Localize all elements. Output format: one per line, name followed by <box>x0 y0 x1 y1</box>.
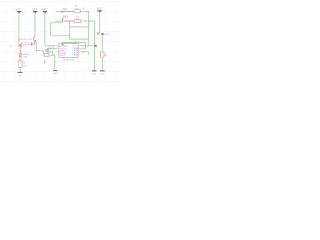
red X marker top right <box>97 32 100 35</box>
svg-text:RxD: RxD <box>63 15 68 19</box>
net horizontal D <box>69 38 88 40</box>
wire from P3 down then right to IC pin <box>45 13 56 45</box>
wire IC pin3 right short stub <box>81 52 88 55</box>
svg-text:PB0A: PB0A <box>73 54 79 57</box>
wire R3 right to ground vertical <box>50 55 55 70</box>
wire from P1 down to Q1 <box>18 13 20 43</box>
power symbol P4 (top right) <box>97 8 102 13</box>
junction blob right <box>101 33 103 35</box>
svg-text:GND: GND <box>100 73 105 75</box>
wire RxD row to R2 <box>64 20 75 22</box>
ground GND1 <box>17 72 22 78</box>
wire from P2 down to Q2 emitter <box>34 13 36 36</box>
base wire Q1 to Q2 (salmon) <box>22 44 34 46</box>
wire tee down from pin1 row <box>52 46 54 49</box>
net stub vertical below C1 area <box>44 60 46 64</box>
svg-text:GND: GND <box>53 73 58 75</box>
svg-text:10k: 10k <box>75 8 78 10</box>
junction dot on Q1 <box>20 45 22 46</box>
svg-text:GND1: GND1 <box>60 55 66 57</box>
svg-text:1k: 1k <box>82 8 84 10</box>
wire tee horizontal to IC pin2 <box>47 48 56 50</box>
resistor R4 (vertical) <box>18 61 22 68</box>
wire Q2 collector down to R3 <box>36 42 43 55</box>
power symbol P2 <box>32 8 37 13</box>
svg-text:VCC: VCC <box>32 8 37 11</box>
wire IC pin1 right to vertical x88.7 <box>81 45 96 47</box>
wire from P4 down to label X <box>99 13 101 33</box>
net horizontal B <box>69 26 88 28</box>
net vertical V1 from RxD row down <box>68 21 70 39</box>
R2 right lead <box>81 20 84 22</box>
box net around (50.7, 22.8-35.8) <box>51 23 70 36</box>
TxD pin stub <box>56 10 61 12</box>
wire from label down to R5 <box>101 35 103 50</box>
wire IC pin2 right up and over IC top <box>63 43 86 49</box>
IC1 right pin texts <box>73 47 79 57</box>
ground GND2 <box>53 70 58 75</box>
resistor R3 (horizontal, center) <box>44 54 49 57</box>
Q2 emitter arrow blob <box>35 40 37 42</box>
RxD pin stub <box>56 20 62 22</box>
transistor Q2 (PNP) <box>34 36 37 42</box>
IC1 box <box>59 44 78 58</box>
ground GND4 <box>100 70 105 75</box>
diode D3 on RxD row (vertical, hanging) <box>61 19 64 21</box>
resistor R2 <box>74 20 80 23</box>
IC1 left pin leads <box>56 46 59 52</box>
wire cap bottom to ground vertical <box>47 52 53 55</box>
svg-text:VCC: VCC <box>42 8 47 11</box>
diode D1 below Q1 <box>19 50 21 54</box>
svg-text:ATTINY2313: ATTINY2313 <box>63 58 75 61</box>
wire D1 to R4 <box>19 57 21 61</box>
resistor R1 <box>74 10 81 13</box>
wire R1 to vertical <box>84 11 89 45</box>
svg-text:LED1: LED1 <box>104 34 110 36</box>
transistor Q1 <box>19 43 22 49</box>
capacitor C1 <box>45 49 49 53</box>
wire R5 to GND4 <box>101 57 103 70</box>
junction tick on wire <box>31 43 32 45</box>
svg-text:VCC: VCC <box>16 8 21 11</box>
svg-text:TxD: TxD <box>62 7 67 11</box>
wire R4 to GND1 <box>19 67 21 72</box>
wire D2 to R1 <box>64 10 75 12</box>
svg-text:10k: 10k <box>76 18 79 20</box>
IC1 right pin leads <box>78 46 81 52</box>
power symbol P3 <box>42 8 47 13</box>
resistor R5 (vertical) <box>100 52 104 57</box>
svg-text:BC557C-SM: BC557C-SM <box>20 39 32 41</box>
power symbol P1 (+5V top-left) <box>16 8 22 13</box>
R1 right lead <box>81 10 85 12</box>
R3 right lead <box>49 54 50 56</box>
IC1 top pin dot <box>62 44 64 46</box>
svg-text:GND: GND <box>17 76 22 78</box>
ground GND3 <box>92 70 97 75</box>
svg-text:GND: GND <box>92 73 97 75</box>
red diagonal up to Q2 <box>34 42 35 45</box>
diode D2 on TxD row (horizontal) <box>61 11 63 13</box>
grid <box>0 0 120 88</box>
wire R2 right to vertical x94 <box>84 21 95 70</box>
junction dot at (94.1,46) <box>95 45 97 47</box>
IC1 left pin texts <box>60 46 68 57</box>
svg-text:VCC: VCC <box>97 8 102 11</box>
